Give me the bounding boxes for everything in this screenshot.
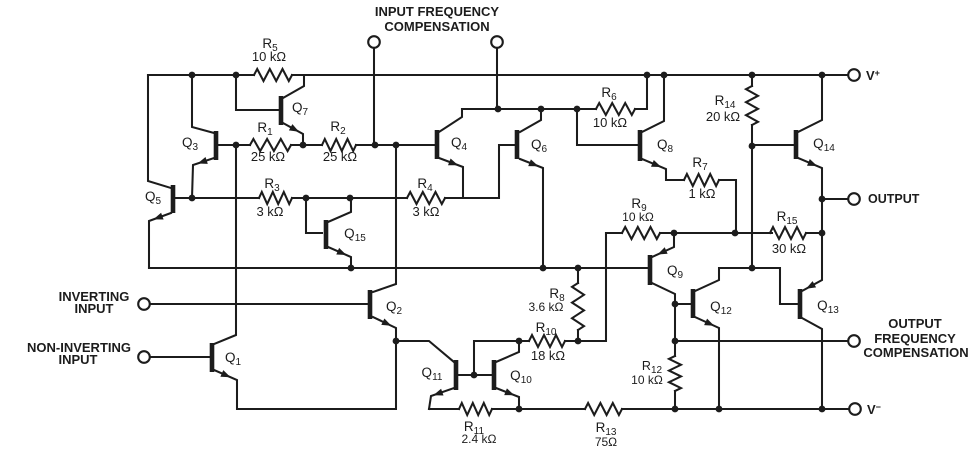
- svg-text:18 kΩ: 18 kΩ: [531, 348, 566, 363]
- svg-text:R7: R7: [692, 155, 708, 173]
- svg-text:R4: R4: [417, 176, 433, 194]
- svg-text:25 kΩ: 25 kΩ: [251, 149, 286, 164]
- svg-text:R2: R2: [330, 119, 346, 137]
- svg-text:3 kΩ: 3 kΩ: [412, 204, 439, 219]
- svg-text:V−: V−: [867, 402, 881, 417]
- svg-text:Q11: Q11: [422, 365, 443, 383]
- svg-text:Q3: Q3: [182, 135, 199, 153]
- svg-text:10 kΩ: 10 kΩ: [622, 210, 654, 224]
- svg-text:Q2: Q2: [386, 299, 403, 317]
- svg-text:INPUT: INPUT: [59, 352, 98, 367]
- svg-text:Q10: Q10: [510, 368, 532, 386]
- svg-text:R6: R6: [601, 85, 617, 103]
- svg-text:INPUT FREQUENCY: INPUT FREQUENCY: [375, 4, 500, 19]
- svg-text:3 kΩ: 3 kΩ: [256, 204, 283, 219]
- svg-text:FREQUENCY: FREQUENCY: [874, 331, 956, 346]
- svg-text:75Ω: 75Ω: [595, 435, 617, 449]
- svg-text:30 kΩ: 30 kΩ: [772, 241, 807, 256]
- svg-text:Q13: Q13: [817, 298, 839, 316]
- svg-text:Q12: Q12: [710, 299, 732, 317]
- svg-text:V+: V+: [866, 68, 880, 83]
- svg-text:R1: R1: [257, 120, 273, 138]
- svg-text:R10: R10: [536, 320, 557, 338]
- svg-text:Q4: Q4: [451, 135, 468, 153]
- svg-text:Q9: Q9: [667, 263, 684, 281]
- svg-text:20 kΩ: 20 kΩ: [706, 109, 741, 124]
- svg-text:Q7: Q7: [292, 100, 309, 118]
- svg-text:INPUT: INPUT: [75, 301, 114, 316]
- svg-text:OUTPUT: OUTPUT: [888, 316, 942, 331]
- svg-text:Q8: Q8: [657, 137, 674, 155]
- svg-text:Q6: Q6: [531, 137, 548, 155]
- svg-text:OUTPUT: OUTPUT: [868, 192, 920, 206]
- svg-text:10 kΩ: 10 kΩ: [631, 373, 663, 387]
- svg-text:25 kΩ: 25 kΩ: [323, 149, 358, 164]
- svg-text:R15: R15: [777, 209, 798, 227]
- svg-text:Q1: Q1: [225, 350, 242, 368]
- svg-text:COMPENSATION: COMPENSATION: [863, 345, 968, 360]
- svg-text:10 kΩ: 10 kΩ: [593, 115, 628, 130]
- svg-text:Q15: Q15: [344, 226, 366, 244]
- svg-text:Q5: Q5: [145, 189, 162, 207]
- svg-text:3.6 kΩ: 3.6 kΩ: [529, 300, 564, 314]
- svg-text:Q14: Q14: [813, 136, 835, 154]
- svg-text:COMPENSATION: COMPENSATION: [384, 19, 489, 34]
- svg-text:10 kΩ: 10 kΩ: [252, 49, 287, 64]
- svg-text:1 kΩ: 1 kΩ: [688, 186, 715, 201]
- svg-text:2.4 kΩ: 2.4 kΩ: [462, 432, 497, 446]
